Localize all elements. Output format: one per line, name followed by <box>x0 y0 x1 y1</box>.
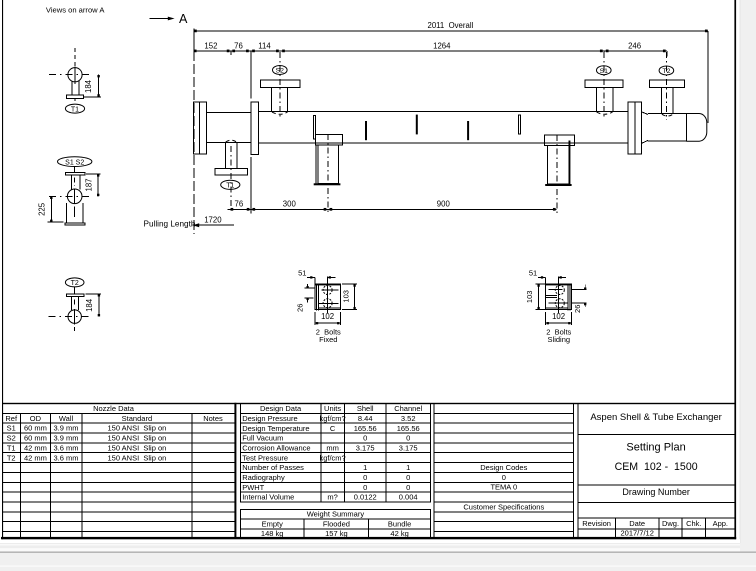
side view T1 nozzle circle <box>68 68 82 82</box>
svg-text:S1: S1 <box>600 68 609 75</box>
svg-text:Pulling Length: Pulling Length <box>144 219 196 228</box>
baffle hollow left <box>313 116 315 139</box>
svg-text:2017/7/12: 2017/7/12 <box>621 528 654 537</box>
svg-text:184: 184 <box>85 298 94 312</box>
right saddle centerline <box>556 135 558 215</box>
baffle 3 <box>467 121 469 140</box>
svg-text:150 ANSI Slip on: 150 ANSI Slip on <box>108 424 167 433</box>
customer specification column <box>434 404 574 539</box>
table top border <box>2 403 735 404</box>
svg-text:Drawing Number: Drawing Number <box>622 487 690 497</box>
svg-text:150 ANSI Slip on: 150 ANSI Slip on <box>108 434 167 443</box>
rear head taper <box>642 112 648 115</box>
svg-text:0.004: 0.004 <box>399 493 418 502</box>
svg-text:CEM 102 - 1500: CEM 102 - 1500 <box>615 461 698 473</box>
side view T1 label <box>65 104 84 113</box>
svg-text:T1: T1 <box>226 183 234 190</box>
side view T1 centerline <box>74 48 76 66</box>
svg-text:0: 0 <box>406 473 410 482</box>
svg-text:Test Pressure: Test Pressure <box>242 453 288 462</box>
svg-text:51: 51 <box>529 268 537 277</box>
weight summary table <box>240 509 430 538</box>
svg-text:150 ANSI Slip on: 150 ANSI Slip on <box>108 443 167 452</box>
nozzle S1 label <box>597 66 612 75</box>
side view S1S2 saddle leg <box>66 203 68 223</box>
svg-text:102: 102 <box>321 312 334 321</box>
baffle 2 <box>416 115 418 135</box>
side view T1 dim 184 <box>84 96 101 98</box>
svg-text:Shell: Shell <box>357 404 374 413</box>
svg-text:Nozzle Data: Nozzle Data <box>93 404 135 413</box>
nozzle T2 flange <box>650 80 685 87</box>
nozzle S1 flange <box>585 80 623 87</box>
svg-text:T2: T2 <box>662 68 670 75</box>
side view T2 flange <box>66 294 83 297</box>
svg-text:T2: T2 <box>71 280 79 287</box>
nozzle T2 pipe <box>661 88 663 114</box>
svg-text:103: 103 <box>342 290 351 303</box>
svg-text:S1 S2: S1 S2 <box>65 159 84 166</box>
nozzle S1 centerline <box>603 52 605 118</box>
svg-text:152: 152 <box>204 41 217 50</box>
side view T2 pipe <box>71 297 73 311</box>
svg-text:Number of Passes: Number of Passes <box>242 463 304 472</box>
nozzle T2 centerline <box>666 52 668 120</box>
side view T1 flange <box>66 95 83 98</box>
svg-text:TEMA 0: TEMA 0 <box>490 483 517 492</box>
svg-text:184: 184 <box>84 79 93 93</box>
svg-text:3.6 mm: 3.6 mm <box>53 443 78 452</box>
svg-text:Design Codes: Design Codes <box>480 463 527 472</box>
svg-text:Units: Units <box>324 404 341 413</box>
svg-text:T2: T2 <box>7 453 16 462</box>
svg-text:Full Vacuum: Full Vacuum <box>242 434 283 443</box>
title block <box>577 404 579 539</box>
dim 2011 Overall <box>194 30 708 32</box>
fixed bolt circles <box>323 286 332 295</box>
svg-text:1: 1 <box>406 463 410 472</box>
table bottom border <box>1 537 736 539</box>
svg-text:2011 Overall: 2011 Overall <box>428 21 474 30</box>
svg-text:0: 0 <box>406 434 410 443</box>
svg-text:3.9 mm: 3.9 mm <box>53 424 78 433</box>
svg-text:0: 0 <box>363 434 367 443</box>
svg-text:C: C <box>330 424 336 433</box>
side view S1S2 flange <box>65 173 84 176</box>
svg-text:S2: S2 <box>276 68 285 75</box>
svg-text:S1: S1 <box>7 424 16 433</box>
svg-text:102: 102 <box>552 312 565 321</box>
nozzle T1 pipe <box>224 142 226 168</box>
svg-text:42 kg: 42 kg <box>390 529 408 538</box>
view arrow A <box>150 18 170 20</box>
rear end cap <box>686 114 707 142</box>
right saddle base <box>545 184 571 186</box>
sliding base plate <box>546 284 572 309</box>
svg-text:Date: Date <box>629 519 645 528</box>
svg-text:3.52: 3.52 <box>401 414 416 423</box>
rear head weld seam <box>685 114 687 142</box>
fixed dim 102 <box>314 312 316 325</box>
page right edge line <box>740 0 741 543</box>
rear girth flange pair <box>628 102 642 154</box>
svg-text:Internal Volume: Internal Volume <box>242 493 294 502</box>
side view S1S2 label <box>57 157 91 167</box>
fixed base plate <box>315 284 341 309</box>
svg-text:Standard: Standard <box>122 414 152 423</box>
tubesheet flange <box>251 102 259 155</box>
svg-text:Weight Summary: Weight Summary <box>307 510 365 519</box>
svg-text:3.9 mm: 3.9 mm <box>53 434 78 443</box>
nozzle T2 label <box>659 66 674 75</box>
svg-text:3.175: 3.175 <box>399 443 418 452</box>
fixed dim 51 <box>307 276 315 278</box>
right saddle wear plate <box>544 135 574 145</box>
svg-text:Corrosion Allowance: Corrosion Allowance <box>242 443 310 452</box>
fixed centerline <box>327 276 329 313</box>
sliding dim 103 <box>536 283 548 285</box>
side view T2 label <box>65 278 84 287</box>
svg-text:300: 300 <box>283 200 297 209</box>
svg-text:Design Data: Design Data <box>260 404 302 413</box>
rear head barrel <box>648 113 686 115</box>
svg-text:OD: OD <box>30 414 42 423</box>
channel barrel <box>206 112 250 114</box>
svg-text:148 kg: 148 kg <box>261 529 284 538</box>
svg-text:Design Temperature: Design Temperature <box>242 424 309 433</box>
svg-text:0: 0 <box>363 473 367 482</box>
svg-text:42 mm: 42 mm <box>24 443 47 452</box>
svg-text:187: 187 <box>84 178 93 191</box>
svg-text:Ref: Ref <box>5 414 18 423</box>
svg-text:App.: App. <box>713 519 728 528</box>
svg-text:m?: m? <box>327 493 337 502</box>
nozzle S1 pipe <box>595 88 597 112</box>
drawing border left <box>2 0 3 539</box>
svg-text:157 kg: 157 kg <box>325 529 348 538</box>
svg-text:76: 76 <box>235 200 244 209</box>
svg-text:1720: 1720 <box>204 215 222 224</box>
left saddle base <box>314 183 341 185</box>
design data table <box>240 404 430 503</box>
left saddle centerline <box>327 134 329 215</box>
extension line right overall <box>707 31 709 123</box>
svg-text:kgf/cm?: kgf/cm? <box>319 414 345 423</box>
svg-text:0: 0 <box>406 483 410 492</box>
bottom bands <box>0 539 740 543</box>
svg-text:Notes: Notes <box>203 414 223 423</box>
svg-text:T1: T1 <box>7 443 16 452</box>
svg-text:PWHT: PWHT <box>242 483 264 492</box>
sliding dim 102 <box>545 312 547 325</box>
nozzle S2 pipe <box>271 88 273 112</box>
side view T2 dim 184 <box>86 293 102 295</box>
baffle 1 <box>365 121 367 140</box>
side view T2 nozzle circle <box>68 310 81 323</box>
nozzle data table <box>2 412 235 414</box>
svg-text:1: 1 <box>363 463 367 472</box>
sliding slot <box>546 294 558 296</box>
svg-text:Customer Specifications: Customer Specifications <box>463 502 544 511</box>
svg-text:103: 103 <box>525 291 534 304</box>
channel cover flange <box>193 102 206 154</box>
side view T1 pipe <box>71 81 73 95</box>
shell <box>259 110 628 112</box>
svg-text:mm: mm <box>326 443 339 452</box>
svg-text:51: 51 <box>298 268 306 277</box>
svg-text:60 mm: 60 mm <box>24 424 47 433</box>
svg-text:26: 26 <box>573 305 582 313</box>
nozzle S2 centerline <box>279 52 281 118</box>
extension line left <box>193 29 195 52</box>
svg-text:Channel: Channel <box>394 404 422 413</box>
svg-text:Design Pressure: Design Pressure <box>242 414 297 423</box>
bottom dim line <box>228 208 557 210</box>
svg-text:Chk.: Chk. <box>686 519 701 528</box>
svg-text:60 mm: 60 mm <box>24 434 47 443</box>
right saddle leg <box>548 145 570 184</box>
svg-text:246: 246 <box>628 41 641 50</box>
nozzle T1 label <box>221 180 240 189</box>
side view S1S2 pipe <box>71 175 73 189</box>
sliding centerline <box>557 276 559 313</box>
sliding dim 26 <box>572 289 587 291</box>
svg-text:0: 0 <box>363 483 367 492</box>
svg-text:76: 76 <box>234 41 243 50</box>
svg-text:Sliding: Sliding <box>548 335 571 344</box>
svg-text:Flooded: Flooded <box>323 519 350 528</box>
fixed dim 26 <box>305 287 315 289</box>
fixed dim 103 <box>342 283 357 285</box>
svg-text:1264: 1264 <box>433 41 451 50</box>
svg-text:3.6 mm: 3.6 mm <box>53 453 78 462</box>
side view S1S2 shell circle <box>67 189 82 204</box>
svg-text:Radiography: Radiography <box>242 473 285 482</box>
svg-text:165.56: 165.56 <box>397 424 420 433</box>
side view S1S2 base plate <box>65 223 85 225</box>
svg-text:Setting Plan: Setting Plan <box>626 442 685 454</box>
svg-text:kgf/cm?: kgf/cm? <box>319 453 345 462</box>
svg-text:225: 225 <box>38 202 47 216</box>
left saddle wear plate <box>315 134 342 145</box>
svg-text:A: A <box>179 12 188 26</box>
nozzle T1 centerline <box>230 146 232 214</box>
sliding bolt circles <box>555 286 564 295</box>
svg-text:Aspen Shell & Tube Exchanger: Aspen Shell & Tube Exchanger <box>590 412 722 423</box>
svg-text:0.0122: 0.0122 <box>354 493 377 502</box>
svg-text:150 ANSI Slip on: 150 ANSI Slip on <box>108 453 167 462</box>
svg-text:T1: T1 <box>71 106 79 113</box>
sliding dim 51 <box>538 276 546 278</box>
svg-text:Fixed: Fixed <box>319 335 337 344</box>
right saddle bold edge <box>569 141 571 185</box>
side view S1S2 dim 187 <box>86 173 101 175</box>
svg-text:Empty: Empty <box>262 519 284 528</box>
svg-text:26: 26 <box>296 304 305 312</box>
baffle hollow right <box>519 115 521 134</box>
nozzle S2 label <box>273 66 288 75</box>
svg-text:8.44: 8.44 <box>358 414 373 423</box>
extension line shell flange face <box>250 52 252 99</box>
svg-text:Wall: Wall <box>59 414 74 423</box>
svg-text:3.175: 3.175 <box>356 443 375 452</box>
nozzle T1 flange <box>215 169 248 175</box>
svg-text:S2: S2 <box>7 434 16 443</box>
svg-text:42 mm: 42 mm <box>24 453 47 462</box>
svg-text:Revision: Revision <box>582 519 611 528</box>
svg-text:900: 900 <box>437 200 451 209</box>
svg-text:165.56: 165.56 <box>354 424 377 433</box>
svg-text:Views on arrow A: Views on arrow A <box>46 6 105 15</box>
left saddle leg <box>318 145 339 183</box>
nozzle S2 flange <box>261 80 300 87</box>
drawing border right <box>734 0 736 539</box>
dim line chain <box>194 50 667 52</box>
side view S1S2 dim 225 <box>48 221 64 223</box>
svg-text:Dwg.: Dwg. <box>662 519 679 528</box>
svg-text:Bundle: Bundle <box>388 519 411 528</box>
svg-text:114: 114 <box>258 41 271 50</box>
svg-text:0: 0 <box>502 473 506 482</box>
